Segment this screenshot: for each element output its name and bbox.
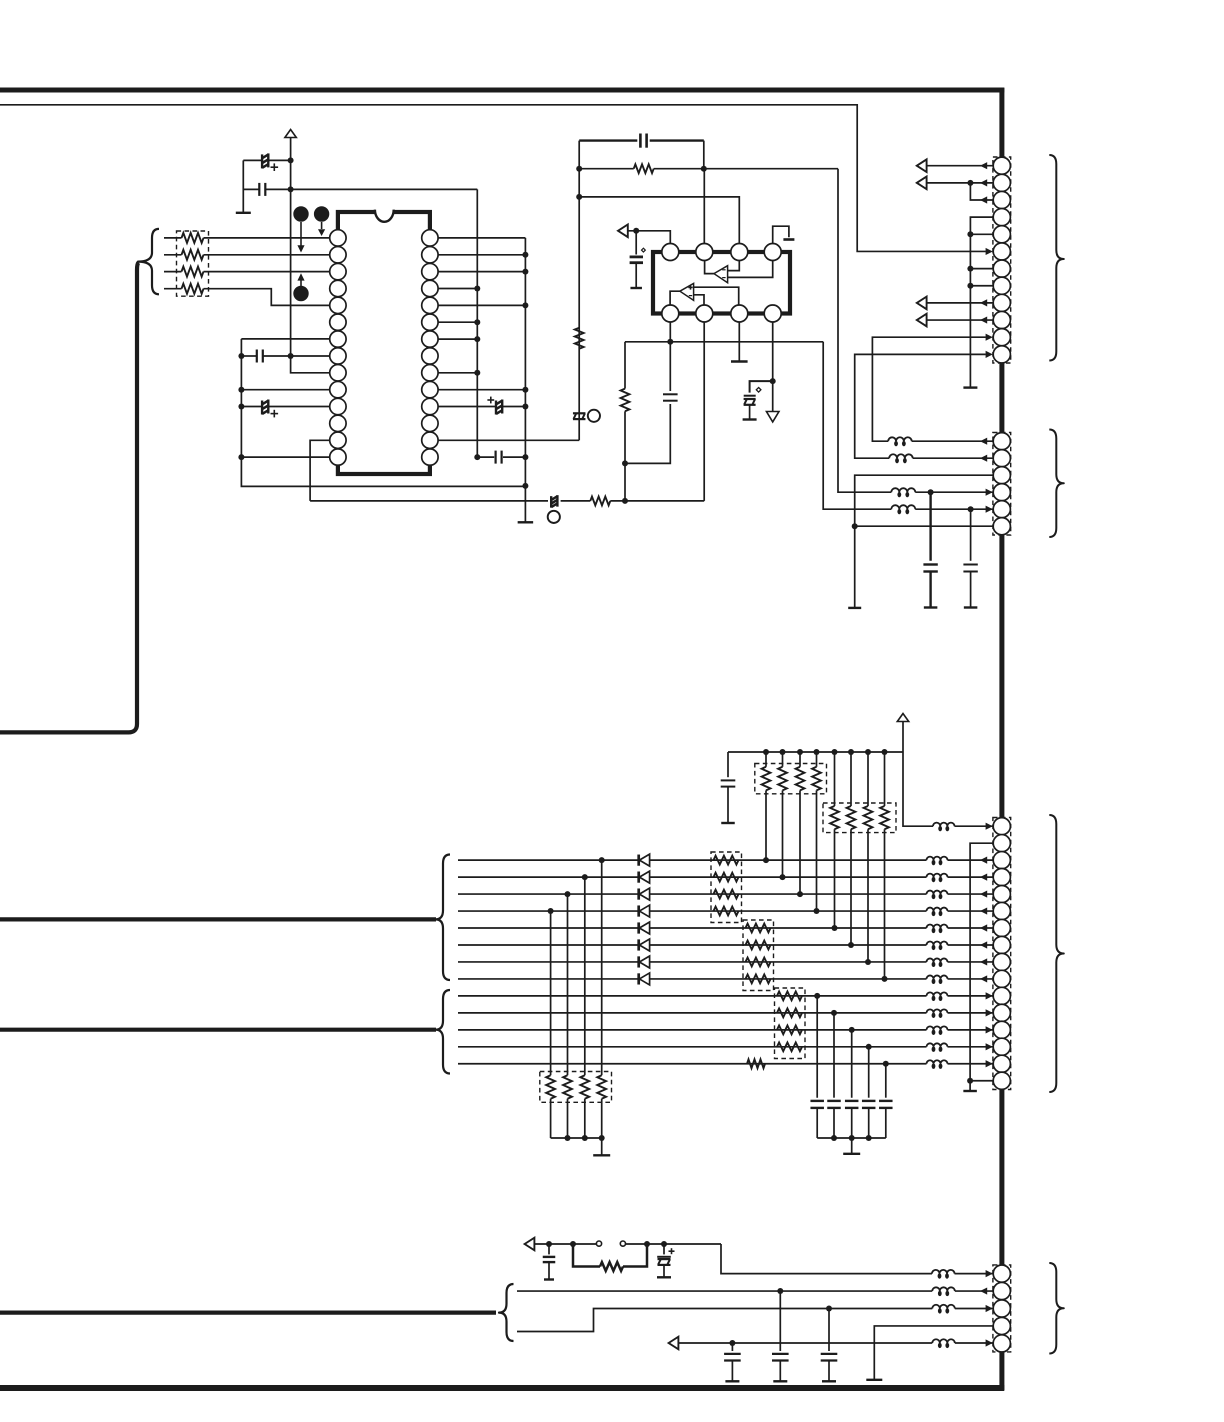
wire data 11 — [458, 1029, 927, 1031]
capacitor C41 electrolytic — [663, 1244, 665, 1254]
connector CN3 pin 3 — [993, 852, 1010, 869]
IC U1 pin 21 (right) — [422, 348, 438, 364]
wire IC1-7 left — [241, 338, 330, 340]
node rail tap 6 — [848, 749, 854, 755]
wire FB43 to CN4-3 — [955, 1308, 993, 1310]
marker pad P1 — [293, 206, 308, 221]
wire right border bus segment 2 — [999, 362, 1004, 434]
node C43 tap — [826, 1306, 832, 1312]
wire U2A out to pin2 — [705, 261, 714, 274]
inductor FB30 — [933, 823, 955, 827]
arrow out CN3-10 — [980, 975, 987, 982]
ground terminal RN7 — [593, 1154, 610, 1156]
wire data 2 — [458, 876, 927, 878]
resistor RN1-3 — [182, 267, 204, 277]
ground terminal cap bank — [843, 1153, 860, 1155]
inductor FB313 — [927, 1060, 948, 1064]
node B-IC1-3 — [522, 269, 528, 275]
resistor RN6-4 — [777, 1042, 802, 1051]
resistor RN6-2 — [777, 1008, 802, 1017]
node wire4 pulldown — [548, 908, 554, 914]
node B-cross — [522, 483, 528, 489]
inductor FB22 — [889, 454, 912, 458]
wire FB25 to CN2-5 — [915, 508, 993, 510]
wire U2B in2 from pin6 — [694, 295, 704, 305]
wire flag to U2-1 — [628, 231, 670, 244]
connector CN2 pin 3 — [993, 467, 1010, 484]
brace CN3 group — [1049, 815, 1064, 1092]
connector CN4 pin 2 — [993, 1282, 1010, 1299]
inductor FB33 — [927, 891, 948, 894]
arrow into CN1-12 — [986, 351, 993, 358]
terminal bar C23 — [743, 418, 757, 420]
wire C10/C11 ground bar — [242, 160, 244, 212]
resistor RN6-3 — [777, 1025, 802, 1034]
resistor RN6-1 — [777, 992, 802, 1001]
arrow out CN1-9 — [980, 299, 987, 306]
wire data 9 to CN3-11 — [948, 995, 994, 997]
connector CN3 outline — [993, 818, 1011, 1090]
wire vertical B (IC1 right ground) — [524, 238, 526, 522]
connector CN3 pin 5 — [993, 885, 1010, 902]
ground terminal C10/C11 — [236, 212, 251, 214]
power symbol VCC2 — [897, 714, 908, 722]
inductor FB35 — [927, 925, 948, 928]
op-amp U2A — [714, 266, 728, 283]
wire FB42 to CN4-2 — [955, 1290, 993, 1292]
wire bus A (to IC1 input brace) — [0, 263, 139, 733]
IC U2 body — [653, 252, 790, 314]
arrow into CN2-4 — [986, 489, 993, 496]
wire CN2-3 ground — [855, 475, 994, 608]
wire CN1-12 to CN2-2 — [855, 354, 986, 458]
wire bus B (to data brace 1) — [0, 917, 436, 921]
node B-IC1-14 — [522, 454, 528, 460]
resistor RN7-3 — [584, 877, 586, 1075]
wire IC1-4 right — [438, 288, 478, 290]
wire CN1-9 — [927, 302, 993, 304]
connector CN3 pin 11 — [993, 987, 1010, 1004]
wire U2A in1 from pin3 — [728, 261, 740, 271]
terminal bar C25 — [964, 606, 978, 608]
IC U1 pin 2 (left) — [330, 247, 346, 263]
brace CN4 group — [1049, 1263, 1064, 1354]
resistor R20 feedback — [579, 168, 634, 170]
diode D8 — [637, 973, 640, 984]
capacitor C31 — [816, 996, 818, 1098]
resistor RN5-4 — [746, 975, 771, 984]
wire RN1-1 to IC1-1 — [204, 237, 331, 239]
connector CN4 pin 3 — [993, 1300, 1010, 1317]
node CN1-8 junction — [967, 283, 973, 289]
ground terminal C21 — [630, 287, 642, 289]
arrow out CN3-7 — [980, 924, 987, 931]
inductor FB37 — [927, 958, 948, 961]
IC U2 pin 1 (top) — [662, 244, 679, 261]
resistor RN3-4 — [884, 752, 886, 806]
connector CN3 pin 16 — [993, 1072, 1010, 1089]
arrow into CN2-5 — [986, 506, 993, 513]
node cap rail 1 — [831, 1135, 837, 1141]
wire IC1-10 right — [438, 389, 526, 391]
node C-IC1-11 — [238, 404, 244, 410]
capacitor C44 — [731, 1343, 733, 1351]
IC U1 pin 8 (left) — [330, 348, 346, 364]
board link BL2 — [550, 496, 552, 508]
wire CN4 brace line B — [517, 1309, 932, 1332]
wire CN1-7 tie — [970, 268, 993, 270]
capacitor C21 — [635, 231, 637, 255]
inductor FB25 — [891, 505, 915, 509]
connector CN1 pin 5 — [993, 226, 1010, 243]
connector CN1 pin 8 — [993, 277, 1010, 294]
IC U1 pin 5 (left) — [330, 297, 346, 313]
IC U2 pin 7 (bottom) — [731, 305, 748, 322]
connector CN3 pin 6 — [993, 902, 1010, 919]
terminal bar C42 — [773, 1380, 787, 1382]
connector CN3 pin 1 — [993, 818, 1010, 835]
wire CN1-10 — [927, 319, 993, 321]
resistor RN2-3 — [799, 752, 801, 767]
wire VCC2 stem to CN3-1 — [903, 722, 933, 827]
wire data 10 to CN3-12 — [948, 1012, 994, 1014]
capacitor C20 feedback — [579, 139, 637, 141]
inductor FB38 — [927, 975, 948, 978]
connector CN3 pin 14 — [993, 1038, 1010, 1055]
wire U2-6 down — [703, 322, 705, 501]
resistor R23 — [561, 500, 591, 502]
node rail tap 5 — [832, 749, 838, 755]
wire data 3 to CN3-5 — [948, 893, 994, 895]
flag net A2 (CN1-2) — [917, 177, 927, 190]
inductor FB31 — [927, 857, 948, 860]
node C-IC1-14 — [238, 454, 244, 460]
switch SW1 contacts — [596, 1241, 601, 1246]
wire IC1-10 left — [241, 389, 330, 391]
diode D2 — [637, 872, 640, 883]
IC U2 pin 3 (top) — [731, 244, 748, 261]
node CN1-7 junction — [967, 266, 973, 272]
wire U2-5 down — [669, 322, 671, 342]
inductor FB32 — [927, 874, 948, 878]
connector CN2 pin 6 — [993, 518, 1010, 535]
wire U2 feed vertical — [578, 141, 580, 441]
node C21 tap — [633, 228, 639, 234]
arrow out CN1-2 — [980, 179, 987, 186]
IC U1 notch — [375, 206, 393, 215]
IC U2 pin 6 (bottom) — [696, 305, 713, 322]
resistor RN3-2 — [850, 752, 852, 806]
IC U2 pin 5 (bottom) — [662, 305, 679, 322]
resistor RN2-2 — [782, 752, 784, 767]
node R22-C22 — [622, 460, 628, 466]
connector CN3 pin 15 — [993, 1055, 1010, 1072]
connector CN3 pin 7 — [993, 919, 1010, 936]
resistor network RN5 box — [743, 920, 774, 991]
node RN7 rail 2 — [582, 1135, 588, 1141]
connector CN2 pin 5 — [993, 501, 1010, 518]
node C44 tap — [729, 1340, 735, 1346]
connector CN1 pin 3 — [993, 191, 1010, 208]
arrow out CN4-2 — [980, 1287, 987, 1294]
resistor RN5-3 — [746, 958, 771, 967]
IC U1 pin 22 (right) — [422, 331, 438, 347]
wire RN7 common rail — [551, 1137, 602, 1139]
ground terminal B — [518, 521, 534, 523]
brace CN4 input group — [499, 1284, 514, 1341]
wire IC1-3 right — [438, 271, 526, 273]
wire FB24 to CN2-4 — [915, 491, 993, 493]
arrow out CN3-8 — [980, 941, 987, 948]
node C41 tap — [661, 1241, 667, 1247]
wire net U2-5 to CN2-5 — [823, 342, 891, 509]
capacitor C40 — [548, 1244, 550, 1254]
wire data 5 to CN3-7 — [948, 927, 994, 929]
node CN3-16 tie — [967, 1078, 973, 1084]
node rail tap 2 — [780, 749, 786, 755]
resistor RN7-2 — [567, 894, 569, 1075]
diode D3 — [637, 888, 640, 899]
arrow into CN3-13 — [986, 1026, 993, 1033]
connector CN3 pin 4 — [993, 869, 1010, 886]
node U2-8 — [770, 378, 776, 384]
wire right border bus segment 1 — [999, 88, 1004, 158]
arrow into CN3-12 — [986, 1009, 993, 1016]
wire CN4-4 ground — [874, 1326, 993, 1380]
diode D5 — [637, 922, 640, 933]
IC U1 pin 20 (right) — [422, 365, 438, 381]
wire right border bus segment 5 — [999, 1351, 1004, 1390]
node A-IC1-6 — [474, 319, 480, 325]
IC U1 pin 10 (left) — [330, 381, 346, 397]
node C24 tap — [928, 489, 934, 495]
connector CN1 pin 10 — [993, 311, 1010, 328]
flag net D1 — [525, 1238, 535, 1251]
inductor FB312 — [927, 1043, 948, 1047]
resistor RN1-1 — [182, 233, 204, 243]
connector CN3 pin 13 — [993, 1021, 1010, 1038]
node wire13 cap tap — [883, 1061, 889, 1067]
node A-IC1-14 — [474, 454, 480, 460]
IC U1 pin 27 (right) — [422, 247, 438, 263]
wire data 1 — [458, 859, 927, 861]
wire data 13 — [458, 1063, 927, 1065]
IC U1 pin 26 (right) — [422, 263, 438, 279]
IC U1 pin 24 (right) — [422, 297, 438, 313]
wire CN1-8 tie — [970, 285, 993, 287]
wire IC1-7 right — [438, 338, 478, 340]
terminal bar C30 — [721, 822, 735, 824]
ground terminal CN2 — [848, 607, 861, 609]
connector CN1 pin 7 — [993, 260, 1010, 277]
inductor FB41 — [932, 1270, 955, 1274]
marker arrow P2 down — [321, 222, 323, 229]
node CN1-2/3 junction — [967, 180, 973, 186]
inductor FB43 — [932, 1305, 955, 1309]
IC U2 pin 4 (top) — [764, 244, 781, 261]
node RN2-4 to wire 4 — [814, 908, 820, 914]
capacitor C15 (IC1-14 right) — [477, 456, 494, 458]
resistor RN7-1 — [550, 911, 552, 1075]
resistor RN1-4 — [182, 284, 204, 294]
power symbol VEE (down) — [766, 412, 779, 422]
node U2 pin3 feed — [576, 194, 582, 200]
inductor FB39 — [927, 992, 948, 995]
capacitor C11 — [243, 188, 259, 190]
wire data 5 — [458, 927, 927, 929]
node R40 out — [644, 1241, 650, 1247]
wire RN1-3 to IC1-3 — [204, 271, 331, 273]
flag net B1 (U2-1) — [618, 225, 628, 238]
wire IC1-9 right — [438, 372, 478, 374]
resistor RN4-2 — [714, 873, 739, 882]
resistor R40 bypass — [573, 1244, 600, 1267]
wire data 9 — [458, 995, 927, 997]
node R20-left — [576, 166, 582, 172]
node wire12 cap tap — [866, 1044, 872, 1050]
wire CN1-3 tie — [970, 183, 993, 200]
IC U1 pin 28 (right) — [422, 230, 438, 246]
wire IC1-2 right — [438, 254, 526, 256]
connector CN2 pin 1 — [993, 433, 1010, 450]
connector CN4 pin 4 — [993, 1317, 1010, 1334]
IC U1 pin 19 (right) — [422, 381, 438, 397]
wire data 6 to CN3-8 — [948, 944, 994, 946]
node wire3 pulldown — [565, 891, 571, 897]
wire CN1-2 — [927, 182, 993, 184]
marker pad P2 — [314, 206, 329, 221]
wire data 13 to CN3-15 — [948, 1063, 994, 1065]
capacitor C32 — [833, 1013, 835, 1098]
connector CN2 pin 4 — [993, 484, 1010, 501]
resistor network RN7 box — [540, 1072, 612, 1103]
inductor FB42 — [932, 1287, 955, 1291]
node VCC1-C10 — [288, 157, 294, 163]
wire top border thin to node CN1-6 — [0, 105, 986, 252]
node RN7 rail 3 — [599, 1135, 605, 1141]
inductor FB311 — [927, 1026, 948, 1030]
node U2-6 tap — [622, 498, 628, 504]
wire U2-4 stub — [773, 226, 789, 244]
node B-IC1-5 — [522, 302, 528, 308]
wire CN1-5 tie — [970, 233, 993, 235]
flag net D2 — [669, 1337, 679, 1350]
wire data 2 to CN3-4 — [948, 876, 994, 878]
capacitor C24 — [929, 492, 931, 561]
wire to CN4-1 — [721, 1244, 932, 1274]
resistor R37 (wire 13) — [747, 1059, 765, 1068]
arrow into CN3-14 — [986, 1043, 993, 1050]
arrow into CN1-11 — [986, 334, 993, 341]
node RN3-4 to wire 8 — [882, 976, 888, 982]
wire flag D1 rail — [535, 1243, 596, 1245]
wire RN1-4 input — [164, 288, 182, 290]
arrow into CN3-15 — [986, 1060, 993, 1067]
marker arrow P1 down — [300, 222, 302, 246]
wire U2-5 node rail — [625, 341, 823, 343]
resistor R21 (on feed vertical) — [575, 328, 584, 349]
node RN7 rail 1 — [565, 1135, 571, 1141]
wire RN7 ground — [601, 1138, 603, 1155]
wire bottom border thick — [0, 1385, 1004, 1391]
wire U2B out to pin5 — [670, 291, 680, 305]
resistor RN4-3 — [714, 890, 739, 899]
node RN3-3 to wire 7 — [865, 959, 871, 965]
node R20-right — [701, 166, 707, 172]
marker arrow P3 up — [300, 281, 302, 287]
terminal bar C43 — [822, 1380, 836, 1382]
wire FB21 to CN2-1 — [912, 440, 994, 442]
resistor network RN4 box — [711, 852, 742, 923]
wire data 4 to CN3-6 — [948, 910, 994, 912]
IC U1 pin 25 (right) — [422, 280, 438, 296]
flag net A4 (CN1-10) — [917, 314, 927, 327]
resistor RN2-4 — [816, 752, 818, 767]
wire net U2R to CN2-4 — [838, 169, 891, 493]
node RN2-2 to wire 2 — [780, 874, 786, 880]
arrow out CN3-5 — [980, 890, 987, 897]
brace data bus 1 — [436, 855, 451, 981]
capacitor C43 — [828, 1309, 830, 1352]
wire U2-7 ground — [738, 322, 740, 361]
node B-IC1-10 — [522, 387, 528, 393]
node CN1-5 junction — [967, 231, 973, 237]
capacitor C22 — [669, 342, 671, 391]
arrow into CN3-11 — [986, 992, 993, 999]
node A-IC1-9 — [474, 370, 480, 376]
node VCC1-C11 — [288, 186, 294, 192]
wire vertical C (IC1 left) — [241, 339, 525, 487]
IC U1 pin 11 (left) — [330, 398, 346, 414]
wire VCC rail to vertical A — [291, 188, 478, 190]
inductor FB34 — [927, 908, 948, 911]
node rail tap 1 — [763, 749, 769, 755]
capacitor C34 — [868, 1047, 870, 1098]
connector CN4 pin 5 — [993, 1335, 1010, 1352]
wire data 12 — [458, 1046, 927, 1048]
capacitor C10 electrolytic — [243, 159, 261, 161]
IC U1 pin 17 (right) — [422, 415, 438, 431]
node C42 tap — [777, 1288, 783, 1294]
node C12 mid — [288, 353, 294, 359]
wire FB30 to CN3-1 — [955, 825, 994, 827]
connector CN3 pin 2 — [993, 835, 1010, 852]
capacitor C30 rail — [727, 752, 729, 777]
brace IC1 input group — [138, 229, 159, 294]
inductor FB36 — [927, 941, 948, 944]
wire IC1-6 right — [438, 321, 478, 323]
IC U1 pin 3 (left) — [330, 263, 346, 279]
node wire11 cap tap — [849, 1027, 855, 1033]
resistor RN3-3 — [867, 752, 869, 806]
IC U1 pin 18 (right) — [422, 398, 438, 414]
wire right border bus segment 4 — [999, 1090, 1004, 1267]
arrow out CN2-1 — [980, 438, 987, 445]
node A-IC1-7 — [474, 336, 480, 342]
node rail tap 4 — [814, 749, 820, 755]
wire RN1-1 input — [164, 237, 182, 239]
IC U1 pin 7 (left) — [330, 331, 346, 347]
connector CN3 pin 8 — [993, 936, 1010, 953]
wire data 10 — [458, 1012, 927, 1014]
wire right border bus segment 3 — [999, 535, 1004, 817]
flag net A3 (CN1-9) — [917, 297, 927, 310]
wire IC1-13 left jog — [310, 440, 330, 501]
resistor RN5-1 — [746, 924, 771, 933]
IC U2 pin 2 (top) — [696, 244, 713, 261]
connector CN2 pin 2 — [993, 450, 1010, 467]
terminal bar U2-4 — [783, 238, 794, 241]
